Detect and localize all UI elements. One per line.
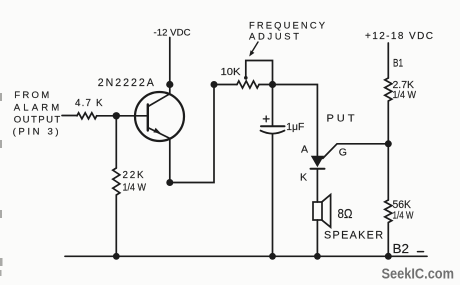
svg-text:SeekIC.com: SeekIC.com: [382, 266, 455, 282]
node C pot right junction: [269, 81, 276, 88]
wire pot left terminal to R3: [214, 84, 237, 86]
wire PUT cathode to speaker: [316, 169, 318, 202]
wire supply to R4: [387, 43, 389, 78]
wire base node to Q1 base: [116, 115, 147, 117]
node speaker ground junction: [314, 253, 321, 260]
svg-text:B2: B2: [393, 242, 410, 256]
wire ground rail: [65, 255, 427, 257]
wire R1 to base node: [97, 115, 117, 117]
svg-text:(PIN 3): (PIN 3): [13, 126, 59, 137]
svg-text:B1: B1: [393, 57, 403, 69]
svg-text:-12 VDC: -12 VDC: [154, 27, 191, 38]
svg-text:SPEAKER: SPEAKER: [324, 230, 383, 242]
node R5 ground junction: [385, 253, 392, 260]
svg-text:1/4 W: 1/4 W: [393, 210, 414, 222]
wire input to R1: [62, 115, 77, 117]
wire Q1 collector to -12VDC: [169, 38, 171, 94]
node C1 ground junction: [269, 253, 276, 260]
resistor R5 56K: [385, 200, 392, 223]
svg-text:1/4 W: 1/4 W: [123, 183, 147, 194]
svg-text:10K: 10K: [221, 66, 241, 78]
resistor R4 value label 2.7K 1/4W: [393, 79, 417, 101]
terminal B2 minus mark: [418, 251, 424, 253]
node gate divider junction: [385, 140, 392, 147]
node base junction: [113, 112, 120, 119]
svg-text:+12-18 VDC: +12-18 VDC: [365, 31, 433, 42]
PUT Q2 device: [311, 156, 325, 169]
scan artifact marks left edge: [0, 93, 3, 276]
wire node C down to C1: [272, 85, 274, 126]
svg-text:ADJUST: ADJUST: [249, 31, 299, 42]
potentiometer R3 10K element: [237, 81, 259, 88]
wire R2 to ground rail: [115, 195, 117, 256]
resistor R1 4.7K: [77, 113, 97, 119]
wire emitter to pot branch: [170, 85, 214, 183]
wire speaker to ground rail: [316, 220, 318, 256]
svg-text:P U T: P U T: [327, 113, 356, 125]
node pot left terminal: [211, 81, 218, 88]
speaker SPK1: [313, 195, 331, 228]
resistor R4 2.7K: [385, 78, 392, 101]
frequency adjust pointer arrow: [253, 42, 259, 51]
svg-text:2N2222A: 2N2222A: [98, 77, 155, 89]
node emitter corner: [166, 179, 173, 186]
wire R3 to node C: [259, 84, 273, 86]
transistor Q1 2N2222A: [135, 92, 184, 141]
wire R4 to gate node: [387, 101, 389, 200]
capacitor C1 1uF: [261, 126, 285, 133]
svg-text:1μF: 1μF: [286, 121, 304, 133]
svg-text:K: K: [300, 172, 307, 184]
capacitor C1 polarity plus sign: [263, 116, 269, 122]
wire C1 to ground rail: [272, 134, 274, 256]
svg-text:FROM: FROM: [14, 90, 49, 101]
resistor R2 22K: [113, 168, 120, 195]
resistor R2 value label 22K 1/4W: [123, 170, 147, 194]
svg-text:A: A: [301, 144, 308, 156]
svg-text:G: G: [339, 147, 347, 159]
svg-text:FREQUENCY: FREQUENCY: [249, 19, 326, 30]
potentiometer R3 wiper contact dot: [244, 76, 248, 80]
svg-text:ALARM: ALARM: [14, 102, 60, 113]
label FREQUENCY ADJUST: [249, 19, 326, 41]
node collector supply dot: [166, 81, 173, 88]
wire Q1 emitter down: [169, 138, 171, 182]
svg-text:1/4 W: 1/4 W: [393, 89, 417, 101]
svg-text:8Ω: 8Ω: [338, 207, 353, 221]
wire base node down to R2: [115, 116, 117, 168]
svg-text:4.7 K: 4.7 K: [75, 98, 103, 109]
svg-text:OUTPUT: OUTPUT: [14, 115, 61, 126]
node R2 ground junction: [113, 253, 120, 260]
wire PUT gate to divider node: [323, 144, 389, 159]
wire R5 to ground rail: [387, 223, 389, 257]
input label FROM ALARM OUTPUT (PIN 3): [13, 90, 61, 137]
potentiometer R3 wiper arm: [246, 61, 273, 85]
resistor R5 value label 56K 1/4W: [393, 199, 414, 222]
wire node C to PUT anode: [273, 85, 318, 156]
svg-text:22K: 22K: [123, 170, 144, 181]
